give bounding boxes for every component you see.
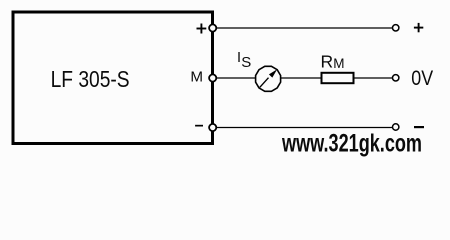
svg-text:S: S (241, 54, 251, 71)
svg-text:R: R (321, 51, 334, 71)
svg-text:LF 305-S: LF 305-S (51, 66, 130, 92)
resistor RM (322, 73, 354, 83)
meter M1 needle (260, 78, 269, 88)
label + (right) (414, 23, 423, 32)
terminal node - on box edge (209, 124, 216, 131)
output terminal + (open circle) (393, 25, 399, 31)
svg-text:M: M (333, 56, 344, 71)
label - (right) (414, 126, 424, 128)
svg-text:M: M (190, 69, 203, 86)
wire resistor to terminal 0V (354, 77, 393, 79)
svg-text:www.321gk.com: www.321gk.com (281, 130, 422, 158)
wire M left segment (214, 77, 256, 79)
wire meter to resistor (281, 77, 322, 79)
output terminal 0V (open circle) (393, 75, 399, 81)
meter M1 body (256, 66, 281, 91)
wire - (bottom) (214, 127, 393, 129)
svg-text:0V: 0V (411, 67, 434, 90)
pin label - (box) (195, 125, 203, 127)
wire + (top) (214, 27, 393, 29)
pin label + (box) (197, 24, 207, 34)
output terminal - (open circle) (393, 124, 399, 130)
transmitter box U1 (LF 305-S) (13, 12, 213, 144)
terminal node M on box edge (209, 74, 216, 81)
terminal node + on box edge (209, 24, 216, 31)
